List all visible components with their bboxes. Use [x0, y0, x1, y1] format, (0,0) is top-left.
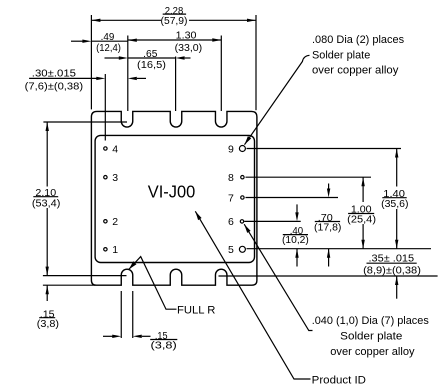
svg-text:1.30: 1.30 — [176, 31, 197, 42]
dimension 1.40 line — [396, 149, 398, 187]
svg-text:over copper alloy: over copper alloy — [312, 65, 399, 77]
pin 6 extension line — [244, 220, 301, 222]
extension line left edge — [90, 15, 92, 109]
fraction bar .15 bottom — [150, 339, 177, 341]
fraction bar .40 — [283, 234, 308, 236]
svg-text:(8,9)±(0,38): (8,9)±(0,38) — [363, 266, 421, 277]
svg-text:.040 (1,0) Dia (7) places: .040 (1,0) Dia (7) places — [312, 315, 430, 327]
svg-text:6: 6 — [228, 216, 234, 228]
dimension .70 arrows — [328, 184, 330, 190]
dimension .65 line — [105, 57, 120, 59]
svg-text:2: 2 — [112, 216, 118, 228]
bottom edge extension left — [43, 284, 95, 286]
pin 2 — [104, 220, 107, 223]
flange line top left — [43, 121, 127, 123]
pin 1 — [104, 248, 107, 251]
svg-text:(3,8): (3,8) — [37, 319, 59, 330]
extension line slot3 center — [220, 36, 222, 112]
pin 6 — [240, 220, 243, 223]
svg-text:(25,4): (25,4) — [347, 215, 376, 226]
svg-text:8: 8 — [228, 172, 234, 184]
dimension 2.10 line — [46, 122, 48, 187]
svg-text:.65: .65 — [143, 49, 158, 60]
svg-text:5: 5 — [228, 244, 234, 256]
svg-text:.080 Dia (2) places: .080 Dia (2) places — [312, 34, 405, 46]
dimension 2.28 line — [91, 19, 161, 21]
dimension .40 arrows — [296, 204, 298, 213]
svg-text:(3,8): (3,8) — [151, 341, 177, 352]
pin 8 — [241, 176, 244, 179]
pin 4 — [104, 147, 107, 150]
dimension .15 bottom — [103, 335, 113, 337]
leader product id — [195, 211, 310, 379]
leader .040 dia to pin 6 — [244, 224, 312, 330]
svg-text:9: 9 — [228, 143, 234, 155]
svg-text:3: 3 — [112, 172, 118, 184]
flange line bottom right — [219, 275, 438, 277]
pin 7 extension line — [246, 197, 339, 199]
pin 9 — [239, 146, 245, 152]
dimension .15 left arrow — [46, 285, 48, 301]
fraction bar .70 — [315, 221, 340, 223]
pin 3 — [104, 176, 107, 179]
svg-text:(57,9): (57,9) — [161, 16, 188, 27]
fraction bar 2.28 — [163, 13, 186, 15]
extension line slot2 center — [175, 57, 177, 112]
svg-text:(53,4): (53,4) — [32, 198, 61, 209]
dimension .49 outside arrow — [71, 40, 83, 42]
svg-text:over copper alloy: over copper alloy — [330, 346, 415, 358]
svg-text:.49: .49 — [101, 32, 115, 43]
fraction bar 1.00 — [348, 213, 374, 215]
flange line bottom left — [43, 275, 127, 277]
svg-text:4: 4 — [112, 143, 118, 155]
svg-text:.30±.015: .30±.015 — [32, 69, 77, 80]
package inner body outline — [95, 135, 254, 262]
svg-text:Product ID: Product ID — [312, 374, 366, 386]
svg-text:7: 7 — [228, 192, 234, 204]
fraction bar .15 left — [39, 317, 55, 319]
pin 7 — [241, 196, 244, 199]
bottom slot1 extension lines — [120, 291, 122, 338]
svg-text:Solder plate: Solder plate — [312, 49, 370, 61]
extension line right edge — [255, 15, 257, 110]
pin 5 extension line — [247, 248, 432, 250]
fraction bar 1.40 — [382, 197, 406, 199]
svg-text:(17,8): (17,8) — [314, 223, 341, 234]
dimension .35 arrow — [396, 276, 398, 299]
svg-text:(10,2): (10,2) — [282, 235, 309, 246]
dimension .30 line — [29, 77, 96, 79]
leader full r — [129, 257, 177, 310]
svg-text:2.10: 2.10 — [35, 188, 56, 199]
pin 9 extension line — [247, 148, 402, 150]
dimension .49 / 1.30 line — [91, 40, 127, 42]
dimension 1.00 line — [362, 177, 364, 202]
svg-text:.35± .015: .35± .015 — [369, 254, 415, 265]
svg-text:(33,0): (33,0) — [175, 43, 203, 54]
svg-text:1: 1 — [112, 244, 118, 256]
svg-text:(16,5): (16,5) — [137, 60, 166, 71]
svg-text:Solder plate: Solder plate — [340, 330, 402, 342]
svg-text:(12,4): (12,4) — [96, 43, 121, 54]
svg-text:FULL R: FULL R — [177, 304, 215, 316]
leader .080 dia to pin 9 — [245, 55, 310, 144]
pin 5 — [239, 246, 245, 252]
svg-text:(7,6)±(0,38): (7,6)±(0,38) — [25, 82, 83, 93]
extension line slot1 center — [127, 36, 129, 112]
svg-text:VI-J00: VI-J00 — [148, 182, 196, 202]
svg-text:(35,6): (35,6) — [381, 199, 408, 210]
fraction bar 2.10 — [33, 196, 58, 198]
extension line pin column — [104, 74, 106, 141]
package outer outline with mounting slots — [91, 111, 257, 285]
fraction bar .35 — [367, 262, 417, 264]
pin 8 extension line — [246, 176, 372, 178]
